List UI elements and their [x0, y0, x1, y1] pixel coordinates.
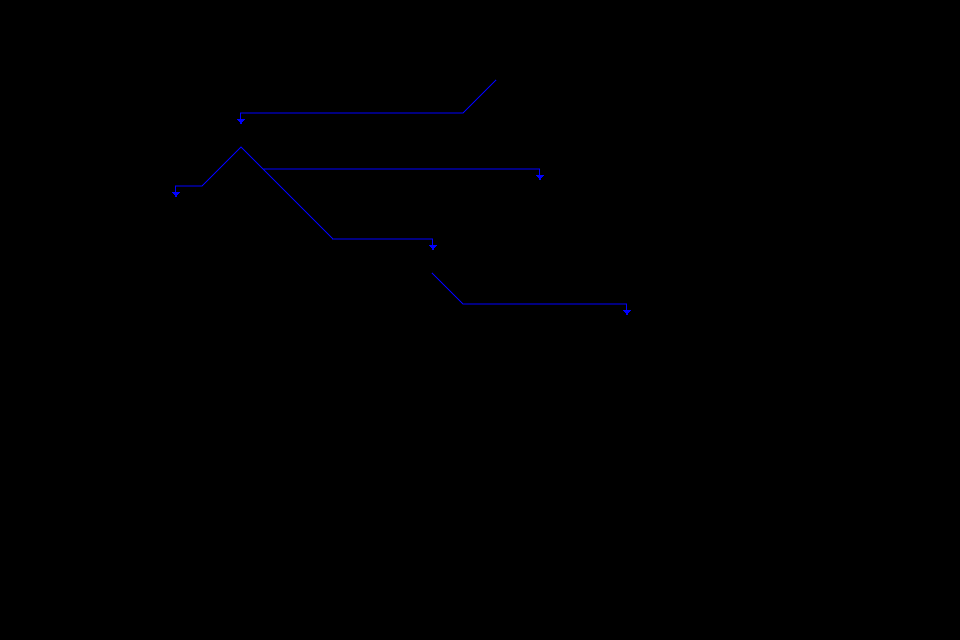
- arrowhead of leader L4 (points down at x=539): [536, 175, 544, 180]
- wire leader L3 (from peak junction down-right 45°, horizontal, short drop): [241, 147, 433, 245]
- wire leader L5 (tail below L3 arrow, down-right 45°, horizontal, short drop): [432, 273, 627, 310]
- arrowhead of leader L3 (points down at x=432): [429, 245, 437, 250]
- arrowhead of leader L2 (points down at x=175): [172, 192, 180, 197]
- wire leader L4 (horizontal branch starting on L3 diagonal, short drop): [263, 169, 540, 175]
- wire leader L2 (from peak junction down-left 45°, horizontal, short drop): [176, 147, 242, 192]
- arrowhead of leader L1 (points down at x=240): [237, 119, 245, 124]
- arrowhead of leader L5 (points down at x=626): [623, 310, 631, 315]
- wire leader L1 (tail at upper right, elbow, long horizontal, short drop toward peak junction): [241, 80, 497, 119]
